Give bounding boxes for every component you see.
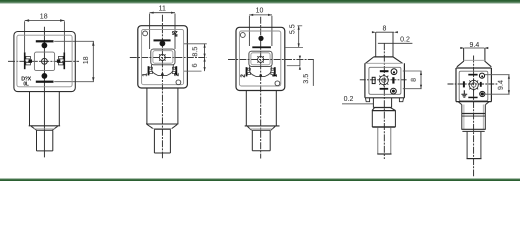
J5 knurl ticks bbox=[469, 79, 478, 91]
J5 pin right-mid bar bbox=[480, 82, 482, 87]
J5 vertical centerline bbox=[473, 56, 475, 177]
J3 gland shoulders bbox=[247, 126, 275, 130]
J3 skirt bbox=[250, 66, 272, 76]
svg-text:2: 2 bbox=[240, 74, 247, 78]
J3 dimension 10 line bbox=[249, 14, 272, 16]
J1 center screw circle bbox=[42, 58, 48, 64]
J2 gland flange line bbox=[146, 123, 178, 125]
J3 gland stub bbox=[252, 130, 270, 151]
svg-text:8: 8 bbox=[411, 78, 418, 82]
J1 center square bbox=[34, 52, 54, 71]
J2 pin slot bar bbox=[154, 39, 171, 41]
J3 dim 3.5 extension bbox=[287, 65, 300, 67]
J3 dim 5.5 line bbox=[298, 26, 300, 48]
J4 pin left bbox=[372, 77, 375, 83]
J1 pin 2 dot bbox=[42, 73, 48, 79]
J3 screw hole bottom-right bbox=[275, 81, 280, 86]
J2 skirt dot bbox=[161, 73, 164, 76]
svg-text:18: 18 bbox=[40, 13, 48, 20]
J3 dim 3.5 short line bbox=[299, 60, 301, 66]
J4 stub bbox=[378, 128, 391, 154]
J5 body bottom line bbox=[456, 101, 491, 103]
J2 pin dot bbox=[160, 41, 166, 47]
J1 dim 18 extension lines bbox=[25, 21, 65, 52]
J2 screw hole top-left bbox=[143, 31, 148, 36]
J3 gland washer line bbox=[249, 128, 272, 130]
J4 pin bar top bbox=[380, 70, 389, 72]
J1 right dimension 18 line bbox=[92, 41, 94, 81]
J4 0.2 bottom leader bbox=[342, 103, 374, 105]
J5 body inner outline bbox=[459, 71, 488, 101]
svg-text:8: 8 bbox=[383, 25, 387, 32]
J5 body top line bbox=[456, 67, 491, 69]
svg-text:1: 1 bbox=[142, 73, 149, 77]
svg-text:18: 18 bbox=[83, 56, 90, 64]
J4 block top line bbox=[372, 110, 396, 112]
J1 right dimension 18 extension lines bbox=[54, 41, 94, 81]
J2 center screw circle bbox=[159, 55, 165, 61]
J5 stub bbox=[467, 132, 481, 159]
J4 block bottom line bbox=[372, 126, 395, 128]
J1 dimension 18 top line bbox=[25, 20, 65, 22]
J1 pin 1 slot bar bbox=[36, 40, 54, 42]
J4 neck bbox=[373, 98, 391, 108]
J3 pin dot bbox=[258, 36, 263, 41]
J2 body inner outline bbox=[142, 29, 184, 84]
J2 cable gland neck bbox=[147, 88, 178, 124]
J1 right earth contact bbox=[63, 52, 65, 69]
svg-text:1: 1 bbox=[272, 73, 279, 77]
J3 dim 10 extension lines bbox=[249, 16, 272, 46]
J4 body inner outline bbox=[369, 67, 401, 94]
J5 right dim 9.4 line bbox=[508, 75, 510, 95]
J3 dim 3.5 leader line bbox=[312, 60, 314, 86]
J3 seal square inner bbox=[251, 53, 270, 65]
J5 top chamfers bbox=[457, 61, 491, 67]
J2 dimension 11 line bbox=[150, 12, 175, 14]
J3 dim 5.5 extension bottom bbox=[285, 46, 303, 48]
J4 block bbox=[372, 111, 395, 127]
J4 pin circle bottom-right bbox=[391, 88, 397, 94]
J4 stub bottom line bbox=[377, 153, 391, 155]
J2 pin 2 contact bbox=[175, 66, 177, 75]
J5 pin circle bottom-right bbox=[480, 91, 485, 96]
J3 seal square outer bbox=[249, 51, 272, 66]
J2 right dimension line bbox=[204, 44, 206, 71]
J5 center knurled circle bbox=[469, 80, 478, 89]
J4 pin circle top-right bbox=[391, 69, 397, 75]
J4 dim 8 arrows bbox=[372, 31, 398, 33]
J5 nut band lines bbox=[462, 113, 486, 115]
J4 top chamfers bbox=[366, 57, 403, 63]
J5 right dim arrows bbox=[508, 75, 510, 95]
top green band bbox=[0, 0, 520, 2]
J3 dim 3.5 arrows bbox=[299, 56, 301, 70]
J4 pin right bar bbox=[392, 77, 394, 83]
svg-text:5.5: 5.5 bbox=[288, 24, 297, 34]
svg-text:0L: 0L bbox=[23, 82, 28, 88]
J4 vertical centerline bbox=[383, 43, 385, 159]
J3 horizontal centerline bbox=[228, 59, 314, 61]
J1 left earth contact bbox=[24, 52, 26, 69]
J2 body outer outline bbox=[138, 26, 188, 88]
J3 vertical centerline bbox=[260, 17, 262, 159]
J3 dim 5.5 extension top bbox=[297, 25, 302, 27]
svg-text:10: 10 bbox=[256, 7, 264, 14]
J2 right dim extension lines bbox=[184, 44, 207, 71]
J1 pin 2 slot bar bbox=[36, 81, 54, 83]
svg-text:9.4: 9.4 bbox=[496, 80, 505, 90]
J2 dim 11 extension lines bbox=[150, 14, 175, 50]
J3 body outer outline bbox=[236, 27, 285, 90]
J5 nut outer bbox=[462, 105, 486, 130]
J5 body outer outline bbox=[456, 68, 491, 102]
J4 right dim 8 extension lines bbox=[403, 71, 422, 89]
J4 right dim arrows bbox=[420, 71, 422, 89]
J4 center knurled circle bbox=[379, 76, 388, 85]
J1 body outer outline bbox=[14, 32, 75, 92]
J5 dim 9.4 arrows bbox=[460, 47, 488, 49]
J2 skirt bbox=[152, 65, 174, 76]
J3 skirt dot bbox=[259, 74, 262, 77]
J1 gland washer line bbox=[34, 128, 55, 130]
J2 pin 1 contact bbox=[148, 66, 150, 75]
svg-text:6: 6 bbox=[190, 63, 199, 67]
J4 chamfer base light line bbox=[366, 62, 402, 64]
J4 right dim 8 line bbox=[420, 71, 422, 89]
J3 screw hole top-left bbox=[240, 33, 245, 38]
J3 dim 5.5 arrows bbox=[298, 26, 300, 48]
J5 stub bottom line bbox=[467, 158, 482, 160]
bottom green band bbox=[0, 178, 520, 180]
J4 tube base line bbox=[374, 56, 394, 58]
J3 pin 2 contact bbox=[246, 67, 248, 76]
J2 vertical centerline bbox=[161, 15, 163, 159]
J4 armature tube sides bbox=[376, 32, 393, 57]
J3 cable gland neck bbox=[246, 91, 276, 126]
J3 gland flange line bbox=[245, 125, 280, 127]
J5 nut inner lines bbox=[464, 105, 483, 130]
J4 flare shoulders bbox=[372, 108, 396, 111]
J5 nut bottom lines bbox=[461, 128, 485, 130]
J4 0.2 leader bbox=[378, 42, 413, 44]
J4 body outer outline bbox=[365, 63, 405, 98]
J4 dimension 8 line bbox=[376, 31, 394, 33]
J1 horizontal centerline bbox=[8, 60, 79, 62]
J5 bottom feet slants bbox=[458, 102, 489, 105]
J4 horizontal centerline bbox=[360, 79, 407, 81]
J1 pin 1 dot bbox=[42, 43, 48, 49]
svg-text:11: 11 bbox=[159, 5, 166, 12]
svg-text:2: 2 bbox=[174, 72, 181, 76]
J5 pin circle top-right bbox=[479, 73, 484, 78]
J5 right dim 9.4 extension lines bbox=[485, 75, 510, 95]
J5 horizontal centerline bbox=[448, 83, 498, 85]
J5 armature tube sides bbox=[464, 48, 485, 61]
J4 knurl ticks bbox=[379, 74, 388, 86]
J5 dimension 9.4 line bbox=[464, 47, 484, 49]
J2 right dim arrows bbox=[204, 44, 206, 71]
J1 gland flange line bbox=[29, 125, 60, 127]
J5 tube base light line bbox=[464, 59, 485, 61]
svg-text:0.2: 0.2 bbox=[400, 36, 410, 43]
J1 cable gland neck bbox=[30, 92, 60, 126]
J1 dim 18 top arrows bbox=[25, 19, 65, 21]
J5 ground symbol bottom-left bbox=[461, 90, 467, 97]
J3 pin 1 contact bbox=[274, 67, 276, 76]
J3 body inner outline bbox=[239, 31, 280, 86]
J3 pin slot bar bbox=[252, 46, 271, 48]
J2 seal square inner bbox=[153, 51, 173, 64]
J2 seal square outer bbox=[151, 49, 175, 65]
J1 gland stub bbox=[37, 130, 53, 151]
J2 dim 11 arrows bbox=[150, 12, 175, 14]
J5 pin bar bottom bbox=[468, 97, 477, 99]
svg-text:8.5: 8.5 bbox=[190, 47, 199, 57]
J5 pin bar top bbox=[468, 74, 477, 76]
J3 center screw circle bbox=[258, 56, 264, 62]
J3 dim 10 arrows bbox=[249, 14, 272, 16]
J1 vertical centerline bbox=[43, 27, 45, 158]
J2 gland washer line bbox=[152, 128, 173, 130]
J4 bottom feet bbox=[365, 98, 403, 102]
J5 pin left bbox=[463, 81, 465, 87]
J2 gland shoulders bbox=[147, 125, 177, 129]
svg-text:3.5: 3.5 bbox=[301, 74, 310, 84]
J4 neck base line bbox=[373, 107, 391, 109]
J2 horizontal centerline bbox=[130, 57, 207, 59]
J1 body inner outline bbox=[17, 35, 72, 87]
J1 right dim arrows bbox=[92, 41, 94, 81]
J2 screw hole bottom-right bbox=[176, 80, 181, 85]
J1 gland shoulders bbox=[31, 126, 57, 130]
J4 pin bar bottom bbox=[380, 88, 389, 90]
svg-text:0.2: 0.2 bbox=[344, 96, 354, 103]
J2 gland stub bbox=[154, 129, 170, 153]
